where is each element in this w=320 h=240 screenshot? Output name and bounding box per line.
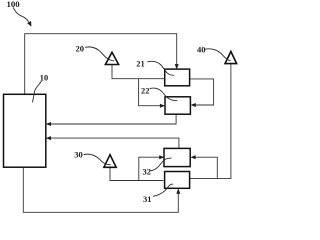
svg-text:32: 32 [143,166,152,176]
svg-text:21: 21 [136,59,145,69]
svg-text:100: 100 [7,0,21,9]
svg-text:31: 31 [143,194,152,204]
svg-text:30: 30 [74,149,83,159]
svg-text:40: 40 [197,44,206,54]
svg-text:20: 20 [76,44,85,54]
svg-text:22: 22 [141,85,150,95]
svg-text:10: 10 [40,74,48,83]
